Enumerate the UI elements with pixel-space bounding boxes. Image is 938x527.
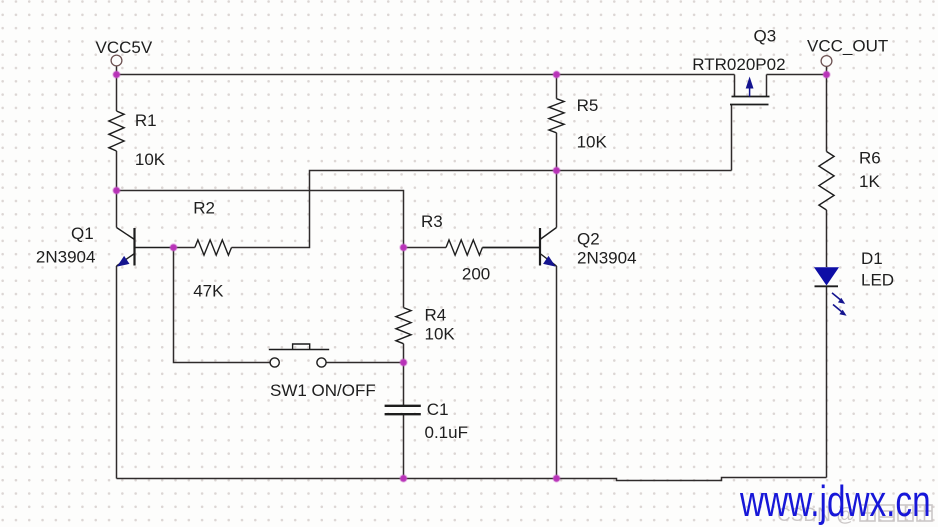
svg-text:R5: R5	[577, 96, 599, 115]
power terminal VCC_OUT	[821, 56, 832, 67]
svg-text:R3: R3	[421, 212, 443, 231]
wire C1 to bottom rail	[403, 415, 405, 479]
svg-text:Q2: Q2	[577, 229, 600, 248]
svg-text:1K: 1K	[859, 172, 880, 191]
node Q2 emitter bottom junction	[553, 475, 560, 482]
wire R4 to node D	[403, 344, 405, 363]
wire R3 to Q2 base	[482, 247, 540, 249]
svg-text:2N3904: 2N3904	[577, 249, 637, 268]
wire node C to R3	[404, 247, 447, 249]
wire node C to R4	[403, 248, 405, 308]
svg-text:LED: LED	[861, 270, 894, 289]
wire Q3 gate drop	[731, 105, 733, 171]
watermark CSDN gray	[777, 505, 932, 526]
wire R2 right end up and across to Q3 gate	[232, 171, 732, 248]
wire top rail right segment Q3 drain to VCC_OUT	[767, 74, 827, 76]
node VCC5V junction	[113, 71, 120, 78]
node B R1 bottom junction	[113, 187, 120, 194]
resistor R5	[549, 99, 564, 133]
transistor Q2	[482, 228, 556, 267]
wire bottom rail	[117, 478, 827, 481]
node Q1 base junction	[170, 244, 177, 251]
svg-text:R4: R4	[425, 306, 447, 325]
wire VCC5V stub	[116, 66, 118, 75]
wire node B to Q1 collector	[116, 191, 118, 228]
wire VCC5V to R1	[116, 75, 118, 112]
svg-text:C1: C1	[427, 400, 449, 419]
wire Q1 base node down to SW1	[174, 248, 271, 363]
node C R3 left junction	[400, 244, 407, 251]
wire node B to R3 branch (horizontal then down)	[117, 191, 404, 248]
wire VCC_OUT stub	[826, 67, 828, 75]
svg-text:R1: R1	[135, 111, 157, 130]
svg-text:200: 200	[462, 264, 490, 283]
svg-text:Q3: Q3	[754, 26, 777, 45]
svg-text:VCC5V: VCC5V	[96, 38, 153, 57]
svg-text:Q1: Q1	[71, 224, 94, 243]
node D SW1-R4-C1 junction	[400, 359, 407, 366]
wire R5 bottom to gate line node	[556, 133, 558, 171]
wire R6 to D1	[826, 210, 828, 267]
svg-text:D1: D1	[861, 249, 883, 268]
svg-text:R2: R2	[193, 199, 215, 218]
node VCC_OUT junction	[823, 71, 830, 78]
svg-text:10K: 10K	[425, 325, 456, 344]
svg-text:www.jdwx.cn: www.jdwx.cn	[739, 478, 930, 526]
svg-text:2N3904: 2N3904	[36, 248, 96, 267]
svg-text:10K: 10K	[577, 132, 608, 151]
transistor Q1	[117, 228, 174, 267]
node gate line junction	[553, 167, 560, 174]
svg-text:R6: R6	[859, 149, 881, 168]
resistor R4	[396, 308, 411, 344]
resistor R3	[446, 240, 482, 255]
resistor R2	[195, 240, 232, 255]
LED D1	[814, 267, 847, 315]
node C1 bottom junction	[400, 475, 407, 482]
wire Q2 emitter to bottom rail	[556, 266, 558, 479]
mosfet Q3	[730, 75, 770, 105]
power terminal VCC5V	[111, 55, 122, 66]
wire Q1 base node to R2	[174, 247, 195, 249]
svg-text:RTR020P02: RTR020P02	[692, 55, 785, 74]
svg-text:SW1 ON/OFF: SW1 ON/OFF	[270, 381, 376, 400]
wire VCC_OUT to R6	[826, 75, 828, 152]
node R5 top junction	[553, 71, 560, 78]
wire R5 top	[556, 75, 558, 99]
svg-text:47K: 47K	[193, 282, 224, 301]
wire SW1 right to node D	[326, 362, 404, 364]
svg-text:10K: 10K	[135, 150, 166, 169]
wire Q1 emitter to bottom rail	[116, 266, 118, 479]
switch SW1	[269, 344, 329, 367]
resistor R6	[819, 152, 834, 211]
wire R1 to node B	[116, 151, 118, 191]
svg-text:VCC_OUT: VCC_OUT	[807, 36, 888, 55]
wire gate node to Q2 collector	[556, 171, 558, 228]
capacitor C1	[385, 406, 421, 414]
wire top rail left segment VCC5V to Q3 source	[117, 74, 735, 76]
resistor R1	[109, 111, 124, 151]
wire D1 to bottom rail	[826, 286, 828, 477]
svg-text:0.1uF: 0.1uF	[425, 423, 468, 442]
wire node D to C1	[403, 363, 405, 406]
